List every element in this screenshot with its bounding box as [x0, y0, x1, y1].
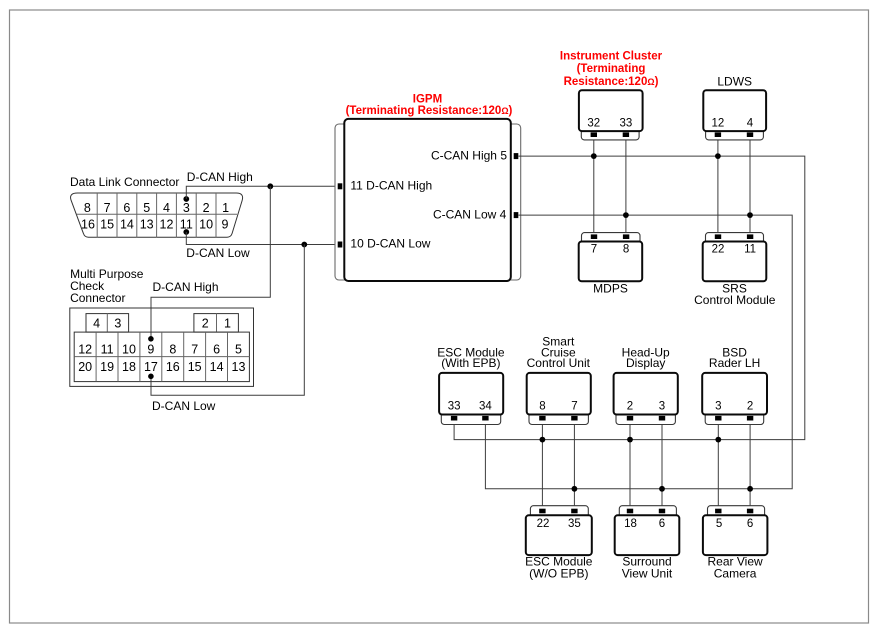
svg-text:14: 14 [210, 360, 224, 374]
svg-text:Instrument Cluster: Instrument Cluster [560, 51, 663, 63]
svg-text:8: 8 [169, 342, 176, 356]
svg-text:10: 10 [199, 218, 213, 232]
node: High bus / BSD3 [715, 437, 721, 443]
svg-text:11: 11 [101, 342, 114, 356]
svg-text:9: 9 [147, 342, 154, 356]
wire: SCC pin8 to ESC(W/O) pin22 [541, 425, 543, 506]
node: Low bus / SCC7 [572, 486, 578, 492]
svg-text:35: 35 [568, 518, 581, 530]
svg-text:4: 4 [163, 201, 170, 215]
node: High bus / IC32 [591, 153, 597, 159]
J2 key pin numbers 4 3 2 1 [93, 316, 231, 330]
svg-text:13: 13 [232, 360, 246, 374]
U1 pin 5 [514, 153, 519, 159]
svg-text:Resistance:120Ω): Resistance:120Ω) [564, 76, 659, 88]
svg-text:D-CAN High: D-CAN High [153, 280, 219, 294]
svg-text:33: 33 [448, 401, 461, 413]
svg-text:9: 9 [222, 218, 229, 232]
wire C-CAN High: IGPM pin5 right, down, bottom High bus [454, 156, 805, 440]
svg-text:14: 14 [120, 218, 134, 232]
module U8: Head-Up Display [614, 373, 678, 425]
svg-text:11 D-CAN High: 11 D-CAN High [350, 178, 432, 192]
svg-text:Control Unit: Control Unit [527, 356, 591, 370]
svg-text:3: 3 [659, 401, 665, 413]
svg-text:IGPM: IGPM [413, 94, 442, 106]
node: Low bus / HUD3 [659, 486, 665, 492]
wire: IC pin33 to MDPS pin8 [625, 140, 627, 233]
svg-text:15: 15 [100, 218, 114, 232]
svg-text:18: 18 [122, 360, 136, 374]
node: Low bus / BSD2 [747, 486, 753, 492]
module U11: Surround View Unit [615, 506, 680, 555]
node: D-CAN Low junction [301, 242, 307, 248]
module U7: Smart Cruise Control Unit [527, 373, 591, 425]
module U3: LDWS [703, 90, 766, 140]
svg-text:6: 6 [213, 342, 220, 356]
wire D-CAN High: J1 pin3 to IGPM pin11 [186, 186, 337, 199]
U1 shell [335, 124, 521, 280]
U1 body [344, 119, 511, 281]
J1 pin 3 terminal dot [183, 196, 189, 202]
svg-text:View Unit: View Unit [622, 566, 673, 580]
svg-text:Camera: Camera [714, 566, 757, 580]
svg-text:7: 7 [571, 401, 577, 413]
svg-text:1: 1 [222, 201, 229, 215]
svg-text:16: 16 [166, 360, 180, 374]
svg-text:4: 4 [747, 118, 754, 130]
J1 pin numbers row 1 [84, 201, 229, 215]
J2 pin 17 terminal dot [148, 374, 154, 380]
svg-text:3: 3 [183, 201, 190, 215]
svg-text:(W/O EPB): (W/O EPB) [529, 566, 588, 580]
svg-text:10 D-CAN Low: 10 D-CAN Low [350, 237, 430, 251]
wire: HUD pin2 to SVU pin18 [629, 425, 631, 506]
node: Low bus / IC33 [623, 212, 629, 218]
svg-text:6: 6 [747, 518, 753, 530]
module U2: Instrument Cluster [579, 90, 643, 140]
svg-text:7: 7 [104, 201, 111, 215]
svg-text:1: 1 [224, 316, 231, 330]
svg-text:4: 4 [93, 316, 100, 330]
svg-text:(Terminating: (Terminating [577, 63, 646, 75]
svg-text:D-CAN Low: D-CAN Low [186, 246, 250, 260]
svg-text:2: 2 [747, 401, 753, 413]
wire: IC pin32 to MDPS pin7 [593, 140, 595, 233]
J1 pin 11 terminal dot [183, 229, 189, 235]
node: High bus / SCC8 [540, 437, 546, 443]
node: High bus / HUD2 [627, 437, 633, 443]
svg-text:D-CAN Low: D-CAN Low [152, 399, 216, 413]
module U12: Rear View Camera [703, 506, 768, 555]
svg-text:5: 5 [143, 201, 150, 215]
svg-text:C-CAN High 5: C-CAN High 5 [431, 148, 507, 162]
svg-text:3: 3 [114, 316, 121, 330]
svg-text:12: 12 [160, 218, 174, 232]
svg-text:12: 12 [78, 342, 92, 356]
svg-text:C-CAN Low 4: C-CAN Low 4 [433, 208, 507, 222]
wire D-CAN Low branch to J2 pin17 [151, 245, 304, 396]
wire: LDWS pin12 to SRS pin22 [717, 140, 719, 233]
U1 pin 11 [338, 183, 343, 189]
svg-text:20: 20 [78, 360, 92, 374]
svg-text:2: 2 [627, 401, 633, 413]
svg-text:3: 3 [715, 401, 721, 413]
wire: BSD pin2 to RVC pin6 [749, 425, 751, 506]
svg-text:5: 5 [235, 342, 242, 356]
svg-text:10: 10 [122, 342, 136, 356]
wire: BSD pin3 to RVC pin5 [717, 425, 719, 506]
module U1: IGPM [335, 119, 521, 281]
svg-text:6: 6 [123, 201, 130, 215]
svg-text:(Terminating Resistance:120Ω): (Terminating Resistance:120Ω) [346, 105, 513, 117]
wire C-CAN Low: IGPM pin4 right, down, bottom Low bus [485, 215, 792, 489]
svg-text:15: 15 [188, 360, 202, 374]
connector J1: Data Link Connector body [71, 193, 243, 237]
wire D-CAN Low: J1 pin11 to IGPM pin10 [186, 232, 337, 245]
svg-text:D-CAN High: D-CAN High [187, 170, 253, 184]
J1 pin numbers row 2 [81, 218, 228, 232]
svg-text:Display: Display [626, 356, 665, 370]
svg-text:5: 5 [716, 518, 722, 530]
svg-text:18: 18 [624, 518, 637, 530]
svg-text:8: 8 [623, 244, 629, 256]
svg-text:34: 34 [479, 401, 492, 413]
svg-text:22: 22 [712, 244, 725, 256]
svg-text:32: 32 [587, 118, 600, 130]
svg-text:11: 11 [744, 244, 756, 256]
J2 pin numbers row 1 [78, 342, 242, 356]
wire: SCC pin7 to ESC(W/O) pin35 [573, 425, 575, 506]
svg-text:Connector: Connector [70, 291, 125, 305]
module U4: MDPS [579, 233, 643, 282]
svg-text:MDPS: MDPS [593, 282, 628, 296]
U1 pin 4 [514, 212, 519, 218]
svg-text:8: 8 [539, 401, 545, 413]
module U9: BSD Rader LH [702, 373, 767, 425]
svg-text:6: 6 [659, 518, 665, 530]
svg-text:8: 8 [84, 201, 91, 215]
svg-text:22: 22 [537, 518, 550, 530]
svg-text:Rader LH: Rader LH [709, 356, 760, 370]
svg-text:LDWS: LDWS [717, 74, 752, 88]
wire: HUD pin3 to SVU pin6 [661, 425, 663, 506]
svg-text:7: 7 [591, 244, 597, 256]
svg-text:16: 16 [81, 218, 95, 232]
wire D-CAN High branch to J2 pin9 [151, 186, 270, 338]
node: High bus / LDWS12 [715, 153, 721, 159]
svg-text:33: 33 [620, 118, 633, 130]
svg-text:Data Link Connector: Data Link Connector [70, 175, 179, 189]
J2 pin numbers row 2 [78, 360, 245, 374]
module U6: ESC Module (With EPB) [439, 373, 503, 425]
svg-text:Control Module: Control Module [694, 293, 776, 307]
node: Low bus / LDWS4 [747, 212, 753, 218]
svg-text:13: 13 [140, 218, 154, 232]
svg-text:19: 19 [100, 360, 114, 374]
svg-text:7: 7 [191, 342, 198, 356]
svg-text:17: 17 [144, 360, 158, 374]
node: D-CAN High junction [267, 183, 273, 189]
U1 pin 10 [338, 242, 343, 248]
svg-text:2: 2 [203, 201, 210, 215]
J2 pin 9 terminal dot [148, 336, 154, 342]
connector J2: Multi Purpose Check Connector body [70, 308, 254, 386]
module U5: SRS Control Module [703, 233, 767, 282]
wire: LDWS pin4 to SRS pin11 [749, 140, 751, 233]
module U10: ESC Module (W/O EPB) [526, 506, 592, 555]
svg-text:(With EPB): (With EPB) [441, 356, 500, 370]
svg-text:2: 2 [202, 316, 209, 330]
svg-text:12: 12 [712, 118, 725, 130]
